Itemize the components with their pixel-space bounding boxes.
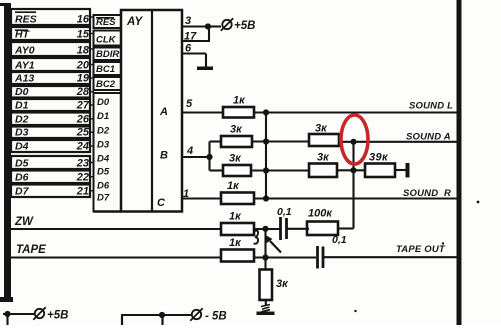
svg-text:18: 18 xyxy=(77,45,90,57)
svg-text:20: 20 xyxy=(76,60,90,72)
svg-text:28: 28 xyxy=(76,86,90,98)
svg-text:D3: D3 xyxy=(97,140,110,151)
svg-text:RES: RES xyxy=(96,17,116,28)
svg-text:23: 23 xyxy=(76,158,89,170)
svg-text:0,1: 0,1 xyxy=(277,206,292,218)
svg-text:21: 21 xyxy=(76,186,89,198)
svg-text:1к: 1к xyxy=(233,95,246,107)
svg-text:5: 5 xyxy=(186,98,193,110)
svg-text:D4: D4 xyxy=(97,154,110,165)
svg-text:BC1: BC1 xyxy=(96,64,115,75)
svg-text:D1: D1 xyxy=(97,111,109,122)
svg-text:100к: 100к xyxy=(308,208,333,220)
svg-text:- 5B: - 5B xyxy=(205,311,227,323)
svg-text:D7: D7 xyxy=(15,186,30,198)
svg-text:0,1: 0,1 xyxy=(332,234,347,246)
svg-text:D5: D5 xyxy=(15,158,29,170)
svg-text:3к: 3к xyxy=(276,278,289,290)
svg-text:D5: D5 xyxy=(97,167,110,178)
svg-text:D2: D2 xyxy=(97,126,110,137)
svg-text:AY: AY xyxy=(126,16,143,28)
svg-text:D4: D4 xyxy=(15,141,29,153)
svg-text:AY1: AY1 xyxy=(14,60,35,72)
svg-text:1к: 1к xyxy=(227,180,240,192)
svg-text:3: 3 xyxy=(185,15,191,27)
svg-text:39к: 39к xyxy=(369,152,389,164)
svg-text:1к: 1к xyxy=(229,211,242,223)
svg-text:TAPE OUT: TAPE OUT xyxy=(396,244,446,255)
svg-text:D7: D7 xyxy=(97,193,110,204)
svg-text:C: C xyxy=(157,197,166,209)
svg-text:27: 27 xyxy=(76,100,90,112)
svg-text:1к: 1к xyxy=(229,237,242,249)
svg-text:SOUND L: SOUND L xyxy=(409,101,453,112)
svg-text:25: 25 xyxy=(76,127,90,139)
svg-text:BDIR: BDIR xyxy=(96,49,119,60)
svg-text:26: 26 xyxy=(76,114,90,126)
svg-text:D3: D3 xyxy=(15,127,29,139)
svg-text:22: 22 xyxy=(76,172,89,184)
svg-text:D6: D6 xyxy=(15,172,29,184)
svg-text:CLK: CLK xyxy=(96,35,117,46)
svg-text:SOUND A: SOUND A xyxy=(406,132,451,143)
svg-text:BC2: BC2 xyxy=(96,79,116,90)
svg-text:B: B xyxy=(160,150,168,162)
svg-text:D0: D0 xyxy=(15,86,29,98)
svg-text:A: A xyxy=(159,106,168,118)
svg-text:16: 16 xyxy=(77,14,90,26)
svg-text:4: 4 xyxy=(186,145,193,157)
svg-text:ZW: ZW xyxy=(14,216,34,228)
svg-text:D1: D1 xyxy=(15,100,29,112)
svg-text:+5B: +5B xyxy=(47,310,68,322)
svg-text:+5B: +5B xyxy=(234,20,255,32)
svg-text:3к: 3к xyxy=(317,152,330,164)
svg-text:24: 24 xyxy=(76,141,89,153)
svg-text:19: 19 xyxy=(77,73,90,85)
svg-text:3к: 3к xyxy=(315,123,328,135)
svg-text:TAPE: TAPE xyxy=(16,244,46,256)
svg-text:AY0: AY0 xyxy=(14,45,35,57)
svg-text:RES: RES xyxy=(15,14,37,26)
svg-text:A13: A13 xyxy=(14,73,34,85)
svg-text:3к: 3к xyxy=(229,153,242,165)
svg-text:3к: 3к xyxy=(230,124,243,136)
svg-text:D2: D2 xyxy=(15,114,29,126)
svg-text:D6: D6 xyxy=(97,181,110,192)
svg-text:D0: D0 xyxy=(97,97,110,108)
svg-text:15: 15 xyxy=(77,29,90,41)
svg-text:SOUND R: SOUND R xyxy=(403,188,451,199)
